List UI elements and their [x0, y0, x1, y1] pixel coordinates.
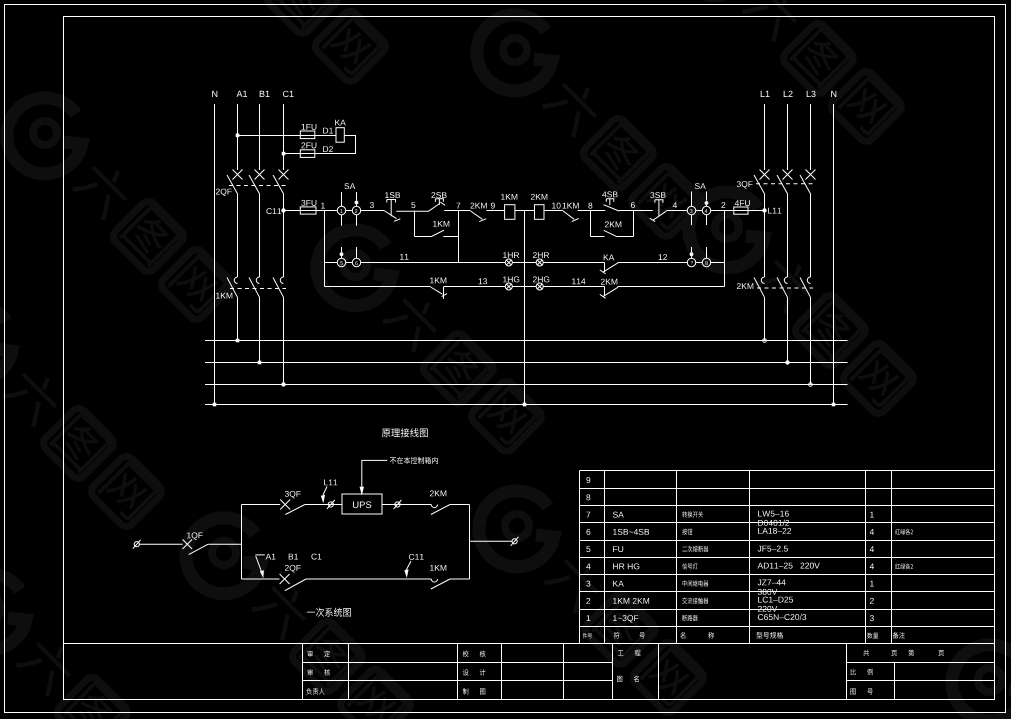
breaker 2QF pole A1 — [227, 170, 243, 195]
switch SA contact 3 — [687, 192, 695, 226]
breaker 3QF pole L1 — [754, 170, 770, 195]
contactor 1KM pole A1 — [227, 277, 238, 297]
wire node1 vertical — [324, 211, 326, 287]
box UPS — [342, 494, 382, 514]
wire A1 vertical upper — [237, 104, 239, 170]
label 3SB — [650, 192, 665, 198]
switch SA contact 6 — [352, 247, 360, 267]
breaker 2QF pole B1 — [249, 170, 265, 195]
node L1 label — [761, 91, 770, 97]
label 核 — [324, 669, 330, 676]
table row 9 — [586, 477, 590, 483]
output terminal symbol — [511, 537, 519, 546]
node A1 label — [237, 91, 248, 97]
header 数量 — [867, 633, 878, 639]
header 件号 — [583, 633, 592, 639]
junction C1-bus3 — [281, 382, 285, 386]
contactor 2KM pole L1 — [754, 277, 765, 297]
header 备注 — [893, 632, 905, 639]
contact 2KM interlock (main line) — [471, 211, 487, 222]
wire SA5-SA6 — [346, 262, 353, 264]
header 型号规格 — [756, 632, 783, 639]
node L2 label — [784, 91, 793, 97]
switch SA contact 8 — [702, 247, 710, 267]
bus line 1 — [205, 340, 848, 342]
coil 2KM — [535, 205, 545, 220]
wire A1 to fuse 1FU — [238, 135, 337, 137]
coil 1KM — [505, 205, 515, 220]
label L11 (one-line) — [324, 480, 337, 486]
label 页2 — [938, 650, 944, 656]
wire N right vertical — [833, 104, 835, 405]
label 制图 — [463, 688, 469, 695]
fuse 4FU — [734, 207, 748, 214]
wire 2SB to node 7 — [444, 210, 470, 212]
label 原理接线图 — [382, 428, 428, 437]
leader to UPS — [362, 460, 388, 487]
label 图2 — [480, 688, 485, 694]
label 号2 — [867, 688, 873, 694]
label 核2 — [480, 651, 486, 658]
label 审定 — [308, 651, 313, 657]
label 2HR — [533, 252, 549, 258]
label 例 — [867, 669, 873, 676]
relay coil KA — [336, 128, 344, 143]
table row 4: HR HG — [586, 563, 874, 570]
header 符号 — [614, 632, 620, 639]
label node 8 — [588, 203, 592, 209]
contactor 1KM linkage dashed — [230, 288, 286, 290]
label 图号 — [851, 688, 856, 694]
table row 7: SA — [586, 511, 873, 526]
contact 1KM (main line) — [563, 211, 579, 222]
wire L2 vertical mid — [787, 195, 789, 278]
switch SA contact 4 with closed dot — [702, 192, 710, 226]
breaker 3QF pole L2 — [777, 170, 793, 195]
label 第 — [908, 650, 914, 657]
contact 2KM (row3) — [600, 287, 618, 299]
label 3FU — [301, 200, 316, 206]
contact KA (row2) — [600, 263, 618, 274]
wire 2HR to KA contact — [543, 262, 604, 264]
label 3QF — [737, 181, 753, 189]
wire bottom branch left — [242, 578, 280, 580]
right rail — [469, 505, 471, 580]
name 信号灯 — [682, 563, 698, 569]
label 1QF — [187, 532, 203, 540]
label 工程 — [618, 650, 624, 655]
header 称 — [708, 632, 714, 639]
label L11 — [768, 208, 781, 214]
junction L3-bus3 — [809, 383, 813, 387]
fuse 1FU — [300, 131, 315, 139]
wire to coil 1KM — [486, 210, 504, 212]
left rail — [241, 505, 243, 580]
wire 2HG to 2KM contact — [543, 286, 604, 288]
label node 7 — [456, 203, 460, 209]
wire B1 vertical mid — [259, 195, 261, 278]
wire 4SB to 3SB — [619, 210, 653, 212]
contactor 1KM pole C1 — [273, 277, 284, 297]
label UPS — [353, 501, 371, 508]
label node 3 — [370, 202, 374, 208]
wire SA8 to node2 vertical — [711, 262, 725, 264]
contactor 1KM pole B1 — [249, 277, 260, 297]
wire 1HG-2HG — [512, 286, 536, 288]
label 2KM (interlock) — [470, 203, 486, 209]
label 审核 — [308, 669, 313, 675]
fuse 3FU — [300, 207, 316, 214]
wire 3SB to SA3 — [666, 210, 687, 212]
label node 9 — [491, 203, 495, 209]
wire L3 vertical mid — [810, 195, 812, 278]
wire C1 vertical mid — [283, 195, 285, 278]
wire 3QF to UPS — [305, 504, 342, 506]
node B1 label — [260, 91, 270, 97]
switch SA contact 5 with closed dot — [337, 247, 345, 267]
wire row2 left — [325, 262, 338, 264]
label 2KM (one-line) — [430, 490, 446, 496]
wire 1KM to right rail — [450, 578, 470, 580]
wire L2 vertical upper — [787, 104, 789, 170]
table row 5: FU — [586, 546, 874, 553]
wire row3 right — [618, 286, 725, 288]
label node 4 — [673, 202, 677, 208]
label 1HG — [503, 276, 519, 282]
contact 1KM (row3) — [431, 287, 447, 300]
switch 1KM (one-line) — [431, 579, 450, 589]
contact 1KM seal-in branch — [415, 230, 459, 236]
remark 红绿各2 row6 — [895, 529, 913, 535]
label 1KM (contact) — [563, 203, 579, 209]
lamp 2HR — [536, 259, 543, 266]
wire node7 vertical — [458, 211, 460, 263]
wire SA2 to 1SB — [360, 210, 384, 212]
label 1KM (one-line) — [430, 565, 446, 571]
wire C11 to 3FU — [284, 210, 317, 212]
wire input left — [139, 543, 182, 545]
wire KA to D2 return — [315, 136, 356, 154]
bus line 3 — [205, 384, 848, 386]
label SA (top right) — [695, 183, 706, 189]
label node 114 — [572, 278, 585, 284]
wire L1 vertical lower — [764, 297, 766, 340]
label 2HG — [533, 276, 549, 282]
note 不在本控制箱内 — [390, 457, 438, 464]
pushbutton 1SB (NC stop) — [384, 200, 400, 222]
table row 3: KA — [586, 580, 874, 595]
junction L1-bus1 — [763, 339, 767, 343]
wire output — [470, 540, 513, 542]
junction C1-2FU — [282, 152, 286, 156]
wire to node 8 — [578, 210, 606, 212]
contactor 2KM pole L2 — [777, 277, 788, 297]
label 计 — [480, 669, 486, 676]
label D1 — [323, 128, 333, 134]
label 页1 — [891, 650, 897, 656]
node C1 label — [283, 91, 294, 97]
junction N-bus4 — [213, 403, 217, 407]
wire A1 vertical mid — [237, 195, 239, 278]
table header row — [0, 0, 1, 1]
leader arrowhead — [360, 487, 364, 496]
switch 2QF (one-line) — [280, 574, 306, 591]
wire 1SB to 2SB — [396, 210, 428, 212]
wire row3 mid — [444, 286, 506, 288]
wire 1HR-2HR — [512, 262, 536, 264]
label 2KM (coil) — [531, 194, 547, 200]
wire 2QF to 1KM — [306, 578, 431, 580]
label 2QF — [216, 189, 232, 197]
wire 4FU to L11 — [725, 210, 765, 212]
label 2KM (row3 contact) — [601, 279, 617, 285]
node L11 junction — [762, 208, 766, 212]
bus line 2 — [205, 362, 848, 364]
wire 2KM coil to contact — [544, 210, 563, 212]
node C11 junction — [281, 208, 285, 212]
wire B1 vertical upper — [259, 104, 261, 170]
junction center-bus4 — [523, 403, 527, 407]
wire N vertical left — [214, 104, 216, 405]
label 名2 — [634, 676, 639, 683]
label 3QF (one-line) — [285, 491, 301, 499]
label 定 — [324, 651, 330, 658]
name 中间继电器 — [683, 580, 709, 586]
wire L2 vertical lower — [787, 297, 789, 362]
parts table grid — [580, 471, 995, 644]
switch SA contact 1 — [337, 192, 345, 226]
label node 10 — [552, 203, 561, 209]
node N (right) label — [831, 91, 836, 97]
wire SA3-SA4 — [696, 210, 702, 212]
label 程 — [635, 650, 641, 656]
name 断路器 — [682, 615, 697, 621]
name 按钮 — [682, 529, 692, 535]
label node 5 — [411, 202, 415, 208]
contactor 2KM linkage dashed — [757, 287, 813, 289]
leader C11 — [404, 561, 411, 578]
title block grid — [64, 644, 995, 700]
wire SA4 to node 2 — [710, 210, 734, 212]
contact 2KM seal-in branch — [591, 211, 634, 237]
wire UPS to 2KM — [382, 504, 431, 506]
name 交流接触器 — [682, 598, 708, 604]
wire SA1-SA2 — [346, 210, 352, 212]
node N (left phase label) — [212, 91, 217, 97]
lamp 2HG — [536, 283, 543, 290]
junction N right-bus4 — [832, 403, 836, 407]
junction L2-bus2 — [785, 360, 789, 364]
label 1KM (coil) — [501, 194, 517, 200]
label C11 — [266, 208, 281, 214]
wire L3 vertical upper — [810, 104, 812, 170]
input terminal symbol — [133, 540, 141, 549]
header 名 — [680, 632, 685, 639]
junction A1-1FU — [236, 134, 240, 138]
switch 1QF — [183, 539, 209, 554]
label 一次系统图 — [307, 608, 351, 617]
node L3 label — [807, 91, 816, 97]
label 共 — [863, 650, 869, 656]
label 1KM (row3 contact) — [430, 278, 446, 284]
label 1KM (left contactor) — [216, 293, 232, 299]
terminal symbol (slashed circle) before UPS — [327, 500, 335, 509]
label 2FU — [301, 142, 316, 148]
table row 6: 1SB~4SB — [586, 528, 874, 535]
labels A1 B1 C1 (one-line) — [266, 554, 276, 560]
leader L11 — [321, 487, 327, 504]
label D2 — [323, 146, 333, 152]
switch SA contact 2 with closed dot — [352, 192, 360, 226]
label KA (coil) — [335, 120, 346, 126]
wire C1 vertical lower — [283, 297, 285, 384]
wire node8 branch vertical — [590, 211, 592, 237]
wire coils link — [515, 210, 535, 212]
breaker 2QF pole C1 — [273, 170, 289, 195]
switch 2KM (one-line) — [431, 505, 450, 515]
label C11 (one-line) — [409, 554, 424, 560]
label node 6 — [631, 202, 635, 208]
label node 1 — [321, 203, 325, 209]
table row 2: 1KM 2KM — [586, 597, 873, 612]
wire C1 vertical upper — [283, 104, 285, 170]
lamp 1HG — [505, 283, 512, 290]
wire top branch left — [242, 504, 281, 506]
pushbutton 3SB — [650, 200, 667, 222]
label 2SB — [431, 192, 446, 198]
label KA (contact) — [604, 255, 615, 261]
terminal symbol after UPS — [394, 500, 402, 509]
wire KA to SA7 — [618, 262, 688, 264]
fuse 2FU — [300, 150, 315, 158]
label 4SB — [602, 191, 617, 197]
label node 12 — [659, 254, 667, 260]
table row 8 — [586, 494, 590, 500]
wire center drop vertical to bus — [524, 211, 526, 405]
label node 13 — [479, 278, 488, 284]
remark 红绿各2 row4 — [895, 563, 913, 569]
label node 11 — [400, 254, 408, 260]
wire row2 mid — [361, 262, 506, 264]
table row 1: 1~3QF — [587, 614, 874, 623]
label 比例 — [851, 669, 856, 675]
wire 1FU to KA coil — [315, 135, 336, 137]
label 1HR — [503, 252, 519, 258]
wire L1 vertical mid — [764, 195, 766, 278]
lamp 1HR — [505, 259, 512, 266]
pushbutton 2SB (NO start) — [428, 199, 445, 212]
wire input to left rail — [208, 543, 241, 545]
label node 2 — [721, 202, 725, 208]
breaker 3QF pole L3 — [800, 170, 816, 195]
wire 3FU to node 1 — [316, 210, 337, 212]
label 校核 — [463, 651, 469, 658]
name 二次熔断器 — [682, 546, 708, 552]
name 转换开关 — [682, 511, 703, 517]
label 设计 — [463, 669, 469, 675]
label SA (top left) — [344, 183, 355, 189]
wire B1 vertical lower — [259, 297, 261, 362]
junction B1-bus2 — [258, 361, 262, 365]
label 2QF (one-line) — [285, 565, 301, 573]
junction A1-bus1 — [236, 339, 240, 343]
wire L1 vertical upper — [764, 104, 766, 170]
label 负责人 — [306, 688, 324, 695]
wire L3 vertical lower — [810, 297, 812, 384]
header 号 — [639, 632, 645, 638]
wire 2KM to right rail — [450, 504, 470, 506]
label 1FU — [302, 124, 317, 130]
bus line 4 — [205, 404, 848, 406]
switch SA contact 7 with closed dot — [687, 247, 695, 267]
wire node2 vertical — [724, 211, 726, 287]
label 1KM (seal-in) — [433, 221, 449, 227]
label 2KM (right contactor) — [737, 283, 753, 289]
wire SA7-SA8 — [696, 262, 702, 264]
wire node5 branch vertical — [414, 211, 416, 237]
wire A1 vertical lower — [237, 297, 239, 340]
leader A1 — [255, 555, 264, 578]
label 图名 — [617, 676, 622, 682]
switch 3QF (one-line) — [280, 500, 305, 515]
label 2KM (seal-in) — [605, 221, 621, 227]
breaker 3QF linkage dashed — [756, 183, 813, 185]
breaker 2QF linkage dashed — [229, 185, 286, 187]
wire 2FU to C1 — [284, 153, 315, 155]
label 1SB — [385, 192, 400, 198]
wire row3 left — [325, 286, 431, 288]
pushbutton 4SB (NO) — [604, 199, 620, 211]
label 4FU — [735, 200, 750, 206]
contactor 2KM pole L3 — [800, 277, 811, 297]
